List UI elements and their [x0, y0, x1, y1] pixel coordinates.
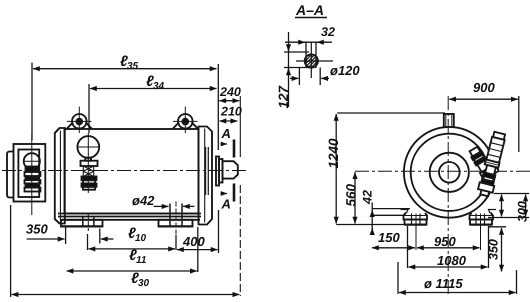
svg-text:42: 42: [361, 190, 375, 205]
grease nipple (small, angled): [468, 146, 495, 180]
svg-text:A–A: A–A: [295, 2, 324, 18]
dimension 1240: [336, 113, 445, 225]
grease cap on body: [77, 133, 99, 193]
dimension d42 foot hole: [154, 205, 195, 207]
base rails under frame: [58, 214, 201, 220]
rear grease fitting circle: [24, 135, 41, 216]
lifting eye left: [67, 107, 93, 134]
section cut mark A (bottom): [221, 184, 235, 202]
dimension 350 (right view): [489, 227, 506, 272]
dimension l30: [11, 205, 240, 297]
right foot (end view): [470, 210, 497, 225]
svg-text:950: 950: [434, 234, 456, 249]
rim boss for grease nipple: [488, 160, 499, 176]
right foot pad: [159, 202, 193, 236]
underline of A-A: [295, 17, 327, 19]
right view horizontal centerline: [355, 170, 530, 172]
dimension 150: [372, 214, 481, 251]
dimension l11: [67, 227, 198, 272]
dimension l34: [89, 84, 217, 133]
svg-text:ø 1115: ø 1115: [424, 276, 463, 291]
dimension 950: [417, 247, 480, 249]
top conduit tab: [444, 114, 454, 128]
rear bearing block (left end): [7, 144, 45, 202]
svg-text:A: A: [221, 197, 231, 212]
svg-text:A: A: [221, 126, 231, 141]
dimension 240 (shaft): [219, 96, 240, 296]
shaft collar: [219, 159, 223, 183]
svg-text:400: 400: [182, 234, 205, 249]
svg-text:350: 350: [26, 222, 48, 237]
section cut mark A (top): [221, 140, 235, 158]
shaft end (side view): [223, 161, 238, 178]
left end shield ring: [55, 128, 65, 224]
svg-text:240: 240: [219, 85, 241, 99]
shaft circle: [439, 162, 460, 183]
left foot (end view): [401, 210, 428, 225]
svg-text:560: 560: [344, 183, 359, 206]
svg-text:350: 350: [487, 239, 501, 260]
svg-text:11: 11: [136, 255, 147, 266]
svg-text:210: 210: [220, 105, 242, 119]
stator frame inner ring: [411, 134, 488, 211]
value l10: [128, 225, 147, 244]
right end shield ring: [199, 127, 213, 225]
svg-text:127: 127: [276, 84, 291, 108]
left foot pad: [61, 214, 103, 231]
value d42: [132, 193, 155, 208]
wire: left view horizontal centerline: [2, 170, 247, 172]
dimension l35: [32, 63, 218, 151]
svg-text:10: 10: [135, 233, 147, 244]
dimension 42 (foot pad height): [372, 203, 410, 235]
value l11: [129, 247, 147, 266]
dimension 32 (section A-A): [285, 42, 332, 68]
conduit hole (section A-A), hatched: [295, 51, 328, 71]
svg-text:35: 35: [127, 61, 139, 72]
dimension 127 (section A-A): [284, 32, 309, 107]
dimension 1080: [408, 226, 489, 268]
svg-text:30: 30: [138, 278, 150, 289]
section label A-A: [295, 2, 324, 18]
rear fitting rib stack: [25, 167, 41, 192]
dimension d1115: [398, 262, 517, 294]
svg-text:900: 900: [473, 80, 495, 95]
value l35: [120, 53, 139, 72]
svg-text:1080: 1080: [437, 253, 467, 268]
dimension l10: [88, 234, 177, 250]
dimension 350 (left): [27, 226, 114, 244]
dimension 210 (shaft): [220, 120, 238, 122]
node: hole centerlines: [296, 42, 333, 78]
value l30: [131, 270, 150, 289]
lifting eye right: [173, 107, 199, 134]
dimension 400: [177, 210, 219, 253]
dimension 300: [488, 194, 529, 218]
svg-text:1240: 1240: [326, 138, 341, 169]
bearing cap lines at drive end: [206, 147, 219, 195]
dimension 560: [354, 172, 356, 223]
dimension d120 (section A-A): [290, 68, 329, 86]
svg-text:ø42: ø42: [132, 193, 155, 208]
grease pipe assembly (large, upper right): [477, 131, 507, 197]
svg-text:150: 150: [378, 230, 400, 245]
bearing boss circle: [430, 153, 469, 192]
motor body (side view) main frame: [65, 129, 199, 214]
right view vertical centerline: [447, 96, 449, 296]
stator frame outer circle: [404, 127, 495, 218]
svg-text:300: 300: [516, 201, 530, 222]
svg-text:ø120: ø120: [330, 63, 360, 78]
svg-text:32: 32: [321, 25, 335, 39]
dimension 900: [449, 96, 519, 152]
value l34: [146, 73, 165, 92]
svg-text:34: 34: [153, 81, 165, 92]
